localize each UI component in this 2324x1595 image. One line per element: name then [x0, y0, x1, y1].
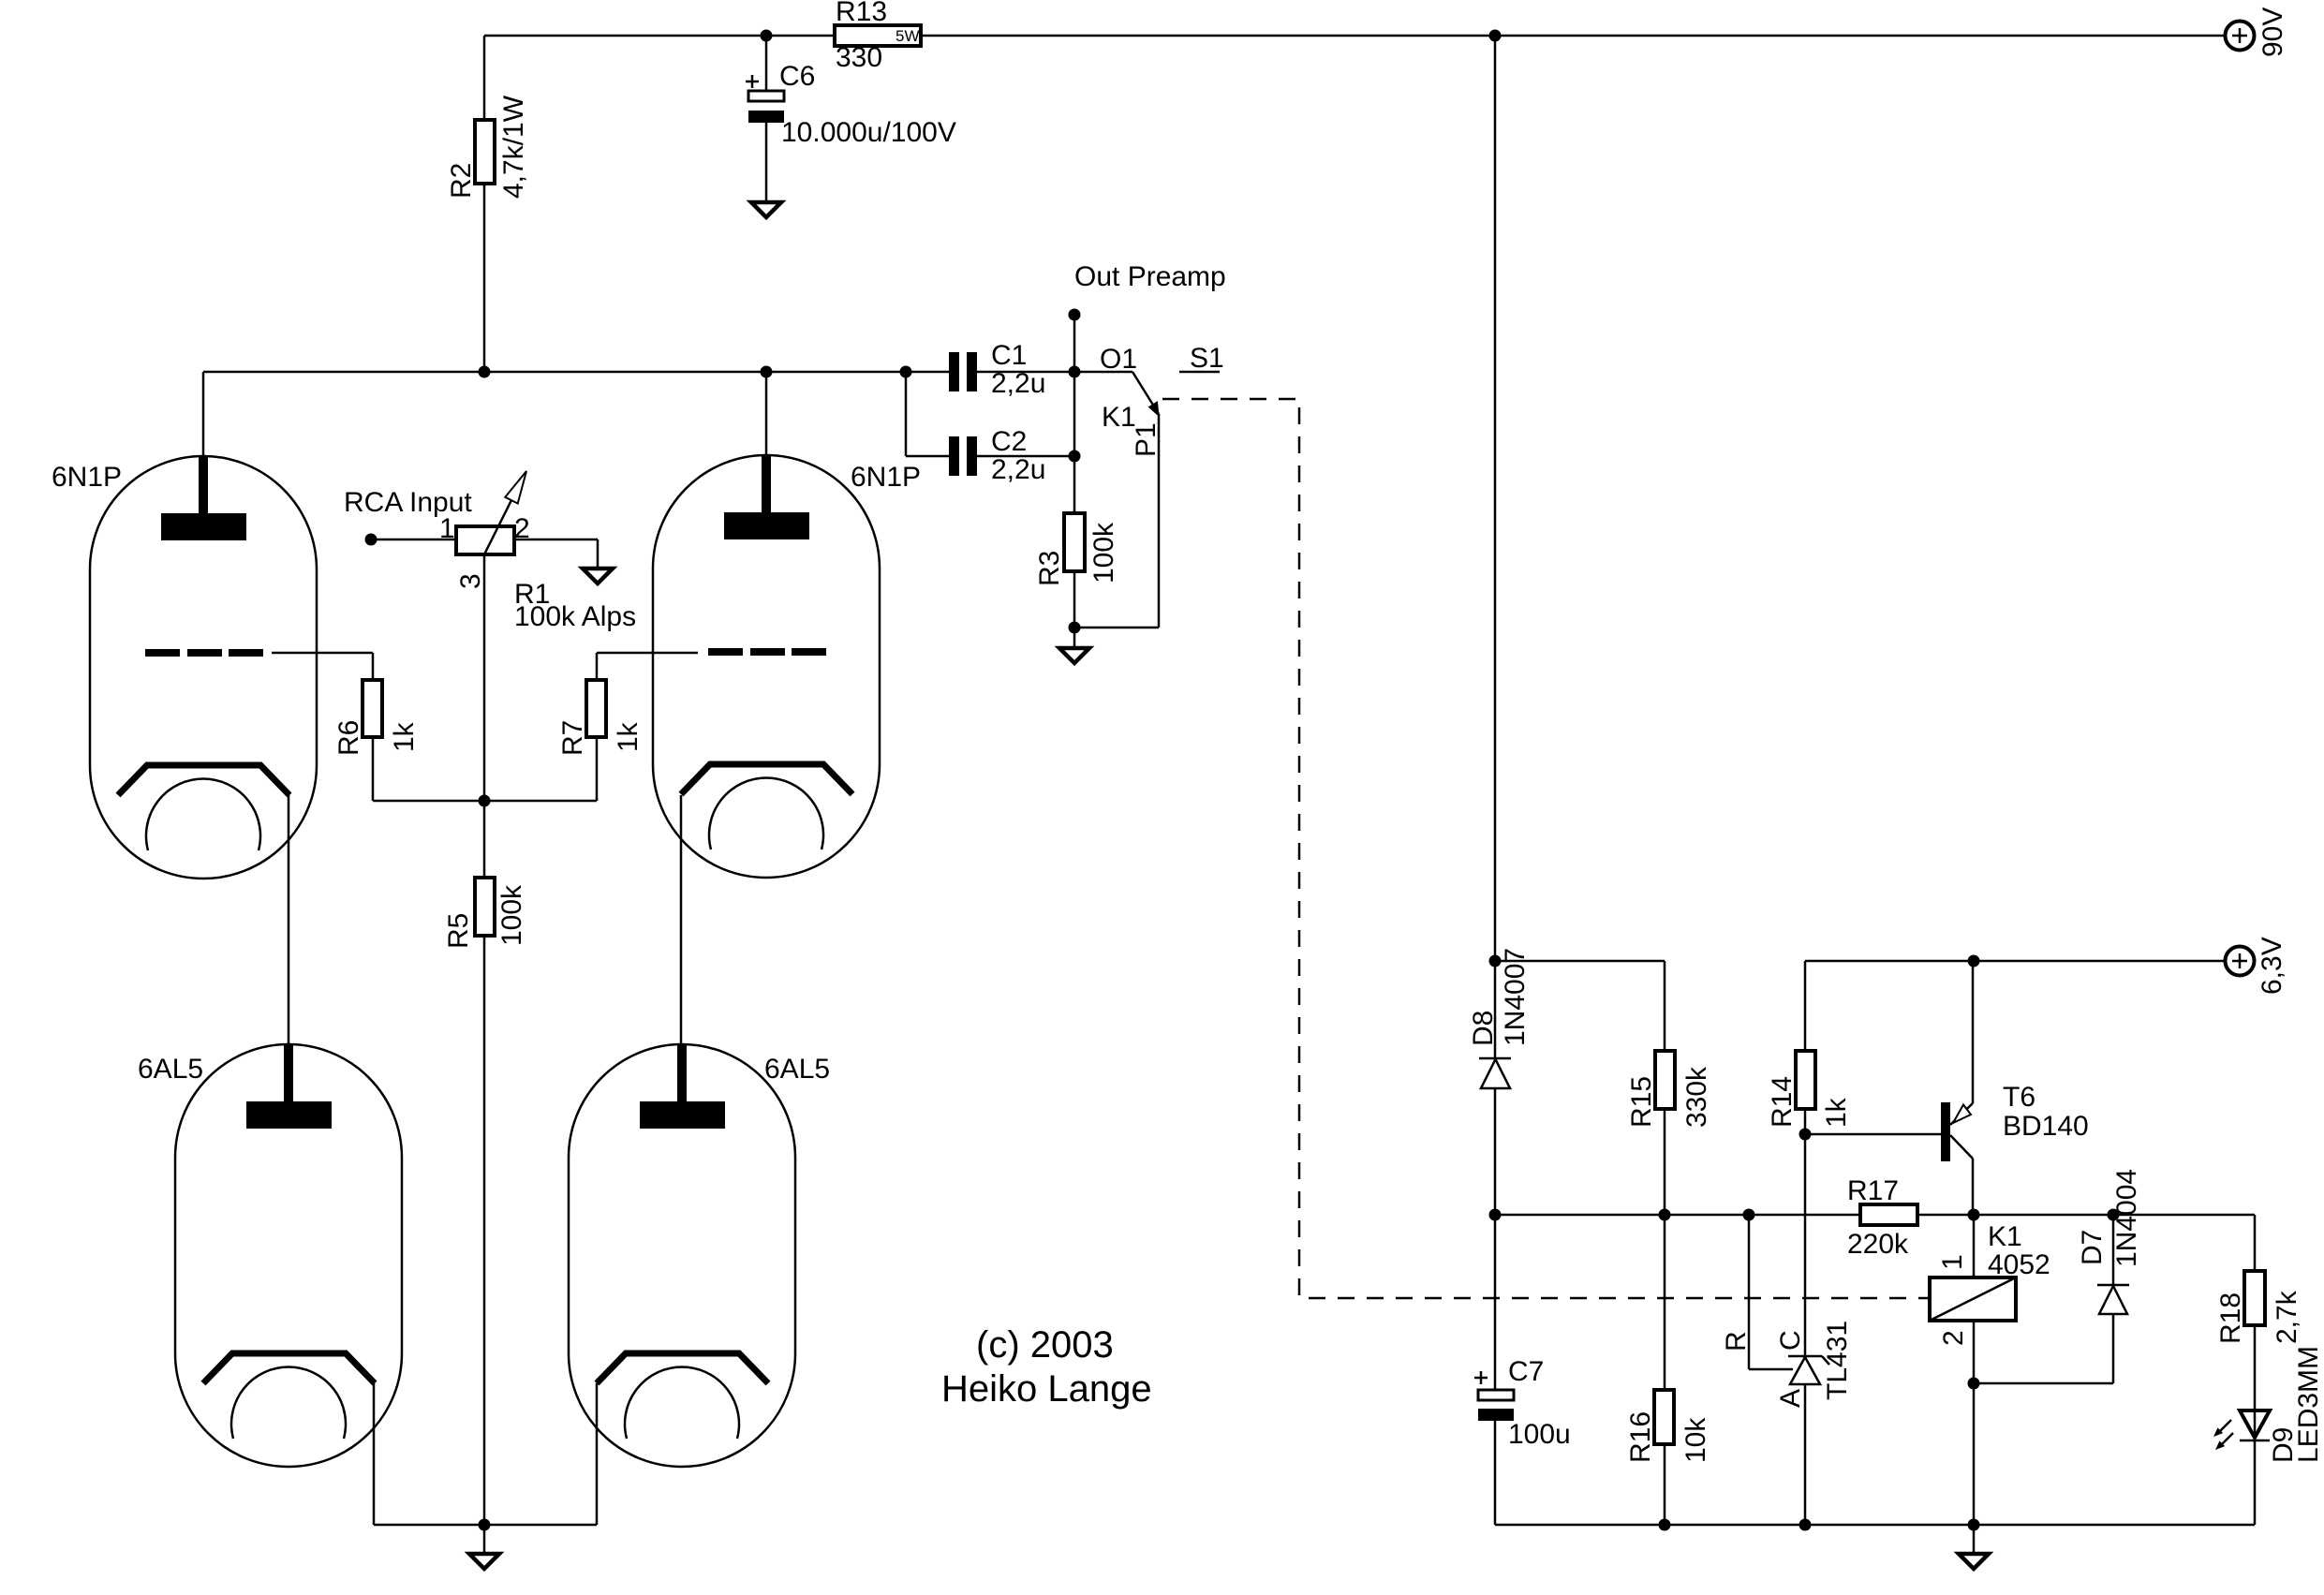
- node junction C1 row / out column: [1069, 366, 1081, 378]
- svg-text:C2: C2: [991, 426, 1027, 457]
- resistor R18: [2244, 1271, 2265, 1325]
- wire C7 top column: [1494, 1215, 1497, 1390]
- svg-text:2: 2: [514, 513, 530, 544]
- resistor R17: [1860, 1204, 1917, 1225]
- svg-text:R2: R2: [446, 163, 477, 199]
- svg-text:P1: P1: [1131, 422, 1162, 457]
- wire top bus right of R13 to 90V: [921, 35, 2225, 37]
- wire K1 pin1: [1973, 1215, 1976, 1277]
- svg-text:1N4007: 1N4007: [1500, 948, 1531, 1046]
- node junction 6.3V rail / T6 emitter: [1968, 955, 1980, 967]
- wire main right vertical upper: [1494, 36, 1497, 1058]
- node Out Preamp: [1069, 309, 1081, 321]
- svg-text:90V: 90V: [2257, 7, 2288, 57]
- wire P1 feedback horizontal: [1074, 627, 1159, 629]
- svg-text:6N1P: 6N1P: [851, 462, 921, 493]
- wire relay bus left of R17: [1495, 1214, 1860, 1217]
- wire pot pin2: [514, 539, 598, 541]
- svg-text:R6: R6: [333, 720, 364, 756]
- wire R3 ground stem: [1073, 628, 1076, 648]
- resistor R5: [475, 878, 495, 936]
- wire tube1 grid lead: [272, 652, 373, 655]
- node junction ground bus / relay branch: [1968, 1519, 1980, 1531]
- wire D8 branch horizontal: [1495, 960, 1665, 963]
- potentiometer R1: [456, 471, 526, 554]
- svg-text:2,2u: 2,2u: [991, 368, 1045, 399]
- ground at R3: [1059, 648, 1089, 663]
- tube V2 6N1P: [653, 455, 880, 878]
- wire R5 bottom long drop: [483, 936, 486, 1525]
- wire tube1 cathode to 6AL5 no1 anode: [288, 795, 290, 1044]
- resistor R3: [1064, 513, 1085, 571]
- LED D9: [2213, 1410, 2270, 1450]
- wire relay bus right of R17: [1917, 1214, 2255, 1217]
- wire R6 bottom drop: [372, 737, 375, 801]
- wire Out Preamp stub: [1073, 315, 1076, 372]
- svg-text:R3: R3: [1034, 551, 1065, 586]
- svg-text:D7: D7: [2077, 1230, 2108, 1265]
- wire right ground stem: [1973, 1525, 1976, 1554]
- svg-text:1k: 1k: [389, 721, 420, 752]
- wire R14 top riser: [1804, 961, 1807, 1051]
- relay coil K1 4052: [1930, 1277, 2016, 1321]
- wire R3 top riser: [1073, 456, 1076, 513]
- ground at C6: [751, 202, 781, 217]
- wire R6 top riser: [372, 653, 375, 680]
- wire C2 right stub: [977, 455, 1074, 458]
- ground at pot pin2: [583, 569, 613, 583]
- svg-text:3: 3: [455, 573, 486, 589]
- svg-text:2: 2: [1938, 1330, 1969, 1346]
- svg-text:R: R: [1721, 1331, 1752, 1351]
- terminal 90V: [2226, 22, 2255, 51]
- wire C6 stem: [765, 36, 768, 91]
- tube V3 6AL5: [175, 1044, 402, 1467]
- wire C2 left stub: [906, 455, 949, 458]
- wire C7 bottom: [1494, 1421, 1497, 1525]
- node junction anode bus / C2 branch: [900, 366, 912, 378]
- wire bottom-right ground bus: [1495, 1524, 2255, 1527]
- svg-text:R13: R13: [836, 0, 887, 27]
- wire R2 bottom to anode bus: [483, 184, 486, 372]
- wire R15 top riser: [1664, 961, 1666, 1051]
- wire top bus left of R13: [484, 35, 835, 37]
- wire D7 bottom: [2112, 1314, 2115, 1383]
- svg-text:100u: 100u: [1508, 1419, 1571, 1450]
- svg-text:BD140: BD140: [2003, 1111, 2089, 1142]
- svg-text:C: C: [1775, 1330, 1806, 1351]
- svg-text:100k: 100k: [496, 884, 527, 946]
- wire R14 bottom: [1804, 1109, 1807, 1134]
- node junction R3 bottom: [1069, 622, 1081, 634]
- transistor T6 BD140: [1941, 1102, 1973, 1161]
- resistor R15: [1655, 1051, 1675, 1109]
- wire C2 branch drop: [905, 372, 908, 456]
- node junction ground bus / TL431 anode: [1799, 1519, 1812, 1531]
- svg-text:6,3V: 6,3V: [2257, 937, 2287, 995]
- tube V1 6N1P: [90, 456, 317, 879]
- svg-text:R17: R17: [1847, 1175, 1899, 1206]
- resistor R6: [363, 680, 382, 737]
- svg-text:6AL5: 6AL5: [764, 1054, 830, 1085]
- node junction top bus / right vertical: [1489, 30, 1502, 42]
- svg-text:R5: R5: [443, 913, 474, 949]
- wire TL431 cathode column: [1804, 1134, 1807, 1356]
- tube V4 6AL5: [569, 1044, 795, 1467]
- diode D8: [1479, 1058, 1511, 1088]
- wire tube2 grid lead: [597, 652, 698, 655]
- wire R2 top riser: [483, 36, 486, 120]
- node junction relay bus / T6 collector: [1968, 1209, 1980, 1221]
- wire pot pin3 column: [483, 554, 486, 801]
- wire R7 top riser: [596, 653, 599, 680]
- wire T6 emitter riser: [1972, 961, 1975, 1103]
- wire LED bottom drop: [2254, 1440, 2257, 1525]
- wire TL431 ref drop: [1748, 1215, 1751, 1369]
- svg-text:6N1P: 6N1P: [52, 462, 122, 493]
- node junction right vertical / D8 branch: [1489, 955, 1502, 967]
- wire T6 collector drop: [1972, 1159, 1975, 1215]
- ground bottom-right: [1959, 1554, 1989, 1569]
- svg-text:(c) 2003: (c) 2003: [976, 1324, 1114, 1366]
- wire cathode bias rail: [373, 800, 597, 803]
- svg-text:O1: O1: [1100, 344, 1137, 375]
- wire C6 to ground: [765, 123, 768, 202]
- svg-text:S1: S1: [1190, 343, 1224, 374]
- svg-text:TL431: TL431: [1822, 1321, 1853, 1400]
- wire left ground stem: [483, 1525, 486, 1554]
- wire C1 right to O1: [977, 371, 1132, 374]
- node junction relay bus / right vertical: [1489, 1209, 1502, 1221]
- node junction relay bus / TL431 ref branch: [1743, 1209, 1755, 1221]
- svg-text:C6: C6: [779, 61, 815, 92]
- wire tube2 anode drop: [765, 372, 768, 455]
- resistor R2: [475, 120, 495, 184]
- svg-text:100k Alps: 100k Alps: [514, 601, 636, 632]
- svg-text:R7: R7: [557, 720, 588, 756]
- wire dashed control link S1 to relay K1: [1162, 399, 1930, 1298]
- resistor R14: [1796, 1051, 1815, 1109]
- wire P1 feedback vertical: [1158, 414, 1161, 628]
- node junction bias rail / R5: [479, 795, 491, 807]
- svg-text:R14: R14: [1767, 1076, 1798, 1128]
- node junction anode bus / R2: [479, 366, 491, 378]
- svg-text:1: 1: [1937, 1254, 1968, 1270]
- wire R18 to LED: [2254, 1325, 2257, 1440]
- resistor R16: [1654, 1390, 1674, 1444]
- wire anode bus: [203, 371, 949, 374]
- wire R3 bottom: [1073, 571, 1076, 628]
- svg-text:D8: D8: [1468, 1011, 1499, 1046]
- svg-text:1k: 1k: [613, 721, 644, 752]
- wire 6.3V rail: [1805, 960, 2225, 963]
- wire T6 base: [1805, 1133, 1941, 1136]
- svg-text:T6: T6: [2003, 1082, 2035, 1113]
- wire D7 to K1 pin2: [1974, 1382, 2113, 1385]
- svg-text:C7: C7: [1508, 1356, 1544, 1387]
- wire 6AL5 no1 cathode drop: [373, 1383, 376, 1525]
- wire TL431 anode column: [1804, 1356, 1807, 1525]
- node junction bottom-left ground: [479, 1519, 491, 1531]
- resistor R13: [835, 25, 921, 46]
- resistor R7: [586, 680, 606, 737]
- wire tube2 cathode to 6AL5 no2 anode: [680, 795, 683, 1044]
- svg-text:1: 1: [439, 513, 455, 544]
- wire bottom-left ground bus: [374, 1524, 597, 1527]
- svg-text:A: A: [1775, 1389, 1806, 1408]
- wire RCA input to pot pin1: [371, 539, 456, 541]
- wire R16 bottom: [1664, 1444, 1666, 1525]
- wire out column C1 to C2: [1073, 372, 1076, 456]
- capacitor C7: [1474, 1371, 1514, 1421]
- svg-text:1k: 1k: [1821, 1097, 1852, 1128]
- svg-text:R15: R15: [1626, 1076, 1657, 1128]
- svg-text:C1: C1: [991, 340, 1027, 371]
- svg-text:6AL5: 6AL5: [138, 1054, 203, 1085]
- wire D7 top: [2112, 1215, 2115, 1285]
- svg-text:R16: R16: [1625, 1411, 1656, 1463]
- ground bottom-left: [469, 1554, 499, 1569]
- capacitor C1: [949, 352, 977, 391]
- svg-text:330k: 330k: [1681, 1066, 1712, 1128]
- wire K1 pin2: [1973, 1321, 1976, 1383]
- svg-text:5W: 5W: [896, 27, 920, 45]
- wire R5 top riser: [483, 801, 486, 878]
- svg-text:R18: R18: [2215, 1292, 2246, 1344]
- shunt regulator TL431: [1788, 1356, 1829, 1384]
- svg-text:330: 330: [836, 42, 882, 73]
- wire R7 bottom drop: [596, 737, 599, 801]
- svg-text:2,7k: 2,7k: [2272, 1290, 2302, 1344]
- svg-text:LED3MM: LED3MM: [2293, 1346, 2324, 1463]
- svg-text:100k: 100k: [1088, 522, 1119, 583]
- wire R16 top column: [1664, 1215, 1666, 1390]
- switch S1 blade: [1132, 372, 1159, 414]
- node RCA input: [365, 534, 377, 546]
- svg-text:1N4004: 1N4004: [2111, 1169, 2142, 1267]
- wire K1 pin2 to ground bus: [1973, 1383, 1976, 1525]
- terminal 6,3V: [2226, 947, 2255, 976]
- svg-text:4052: 4052: [1988, 1249, 2050, 1280]
- node junction T6 base / R14 / TL431: [1799, 1129, 1812, 1141]
- svg-text:2,2u: 2,2u: [991, 454, 1045, 485]
- node junction relay bus / D7: [2108, 1209, 2120, 1221]
- wire TL431 ref horizontal: [1749, 1368, 1793, 1371]
- svg-text:Out Preamp: Out Preamp: [1074, 261, 1226, 292]
- node junction C2 row / out column: [1069, 450, 1081, 463]
- wire S1 label underline: [1179, 371, 1220, 374]
- capacitor C2: [949, 436, 977, 476]
- node junction ground bus / R16: [1659, 1519, 1671, 1531]
- node junction K1 pin2 / D7: [1968, 1378, 1980, 1390]
- diode D7: [2097, 1285, 2129, 1314]
- wire R15 bottom drop: [1664, 1109, 1666, 1215]
- svg-text:10.000u/100V: 10.000u/100V: [781, 117, 956, 148]
- node junction anode bus / tube2: [761, 366, 773, 378]
- capacitor C6: [746, 75, 784, 123]
- node junction relay bus / R15: [1659, 1209, 1671, 1221]
- svg-text:K1: K1: [1988, 1221, 2022, 1252]
- node junction top bus / C6: [761, 30, 773, 42]
- svg-text:Heiko Lange: Heiko Lange: [941, 1368, 1152, 1410]
- wire tube1 anode drop: [202, 372, 205, 456]
- svg-text:220k: 220k: [1847, 1229, 1909, 1260]
- wire R18 top riser: [2254, 1215, 2257, 1271]
- wire pot pin2 ground drop: [597, 539, 600, 569]
- switch S1 pole arrowhead: [1148, 402, 1159, 416]
- svg-text:4,7k/1W: 4,7k/1W: [498, 95, 529, 199]
- wire 6AL5 no2 cathode drop: [596, 1383, 599, 1525]
- wire main right vertical below D8: [1494, 1088, 1497, 1215]
- svg-text:10k: 10k: [1680, 1417, 1711, 1463]
